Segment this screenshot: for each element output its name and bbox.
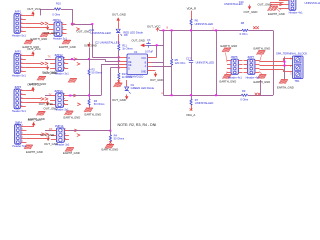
svg-text:Header 5x1: Header 5x1 bbox=[12, 109, 27, 113]
svg-text:Header 4x1: Header 4x1 bbox=[289, 10, 304, 14]
svg-text:OUT_GND: OUT_GND bbox=[244, 10, 258, 14]
svg-text:EARTH_GND: EARTH_GND bbox=[31, 37, 48, 41]
svg-text:R11: R11 bbox=[122, 43, 127, 47]
svg-text:SPA_TERMINAL_BLOCK: SPA_TERMINAL_BLOCK bbox=[276, 52, 307, 56]
svg-text:B: B bbox=[167, 26, 169, 29]
svg-text:EARTH_GND: EARTH_GND bbox=[277, 85, 294, 89]
svg-text:R10: R10 bbox=[56, 1, 61, 5]
svg-text:EARTH_GND: EARTH_GND bbox=[221, 44, 238, 48]
svg-text:R2: R2 bbox=[92, 68, 96, 72]
svg-text:JMP13: JMP13 bbox=[54, 89, 63, 93]
svg-text:R5: R5 bbox=[175, 58, 179, 62]
svg-text:EARTH_GND: EARTH_GND bbox=[85, 112, 102, 116]
svg-text:OUT_VCC: OUT_VCC bbox=[147, 25, 161, 29]
svg-text:OUT_VCC: OUT_VCC bbox=[27, 7, 41, 11]
svg-text:0 Ohm: 0 Ohm bbox=[240, 32, 248, 36]
svg-text:OUT_GND: OUT_GND bbox=[44, 31, 58, 35]
svg-text:JMP3: JMP3 bbox=[14, 85, 21, 89]
svg-text:JMP4: JMP4 bbox=[15, 120, 22, 124]
svg-text:OUT_GND: OUT_GND bbox=[77, 30, 91, 34]
svg-text:R: R bbox=[128, 57, 130, 60]
svg-text:Header 4x1: Header 4x1 bbox=[246, 76, 261, 80]
svg-text:EARTH_GND: EARTH_GND bbox=[254, 80, 271, 84]
svg-text:Header 5x1: Header 5x1 bbox=[12, 33, 27, 37]
svg-text:3: 3 bbox=[290, 73, 292, 75]
svg-text:R7: R7 bbox=[195, 98, 199, 102]
svg-text:OUT_GND: OUT_GND bbox=[112, 13, 126, 17]
svg-text:JMP7: JMP7 bbox=[247, 55, 254, 59]
svg-text:VDA_A: VDA_A bbox=[186, 113, 195, 117]
svg-text:GND: GND bbox=[141, 71, 147, 74]
svg-text:VCC: VCC bbox=[141, 57, 146, 60]
svg-text:D1: D1 bbox=[131, 83, 135, 87]
svg-text:OUT_GND: OUT_GND bbox=[150, 78, 163, 82]
svg-text:U1: U1 bbox=[134, 50, 138, 54]
svg-text:VDA_R: VDA_R bbox=[187, 7, 196, 11]
svg-text:R14: R14 bbox=[122, 72, 127, 76]
svg-text:2: 2 bbox=[213, 27, 215, 30]
svg-text:JMP14: JMP14 bbox=[55, 124, 64, 128]
svg-text:EARTH_GND: EARTH_GND bbox=[254, 46, 271, 50]
svg-text:JMP1: JMP1 bbox=[14, 10, 21, 14]
svg-text:OUT_GND: OUT_GND bbox=[42, 71, 56, 75]
svg-text:NOTE: R2, R3, R4 - DNI: NOTE: R2, R3, R4 - DNI bbox=[118, 123, 157, 127]
svg-text:JMP12: JMP12 bbox=[54, 53, 63, 57]
svg-text:Header 5x1: Header 5x1 bbox=[12, 144, 27, 148]
svg-text:EARTH_GND: EARTH_GND bbox=[23, 45, 40, 49]
svg-text:TB1: TB1 bbox=[295, 79, 300, 83]
svg-text:R8: R8 bbox=[241, 21, 245, 25]
svg-text:UNINSTALLED: UNINSTALLED bbox=[91, 31, 111, 35]
svg-text:2: 2 bbox=[290, 66, 292, 68]
svg-text:GREEN LED Diode: GREEN LED Diode bbox=[131, 86, 155, 90]
svg-text:Header 5x1: Header 5x1 bbox=[12, 73, 27, 77]
svg-text:JMP2: JMP2 bbox=[14, 50, 21, 54]
svg-text:RX: RX bbox=[49, 128, 53, 131]
svg-text:EARTH_GND: EARTH_GND bbox=[59, 45, 76, 49]
svg-text:TX: TX bbox=[48, 56, 51, 59]
svg-text:SN65HVD11D: SN65HVD11D bbox=[126, 75, 143, 79]
svg-text:A: A bbox=[161, 92, 163, 95]
svg-text:0 Ohm: 0 Ohm bbox=[52, 13, 60, 17]
svg-text:EARTH_GND: EARTH_GND bbox=[26, 150, 43, 154]
svg-text:C17: C17 bbox=[186, 57, 191, 61]
svg-text:R3: R3 bbox=[94, 99, 98, 103]
svg-text:JMP5: JMP5 bbox=[231, 55, 238, 59]
svg-text:C3: C3 bbox=[147, 38, 151, 42]
svg-text:0.07uF: 0.07uF bbox=[145, 49, 154, 53]
svg-text:EARTH_GND: EARTH_GND bbox=[220, 80, 237, 84]
svg-text:R6: R6 bbox=[195, 18, 199, 22]
svg-text:EARTH_GND: EARTH_GND bbox=[64, 116, 81, 120]
svg-text:OUT_GND: OUT_GND bbox=[132, 39, 145, 43]
svg-text:R4: R4 bbox=[114, 133, 118, 137]
svg-text:EARTH_GND: EARTH_GND bbox=[30, 82, 47, 86]
svg-text:D: D bbox=[128, 67, 130, 70]
svg-text:DE: DE bbox=[128, 64, 132, 67]
svg-text:JMP11: JMP11 bbox=[53, 18, 62, 22]
svg-text:OUT_GND: OUT_GND bbox=[258, 3, 272, 7]
svg-text:OUT_GND: OUT_GND bbox=[39, 102, 53, 106]
svg-text:OUT_GND: OUT_GND bbox=[40, 133, 54, 137]
svg-text:C2 UNINSTALLED: C2 UNINSTALLED bbox=[95, 40, 120, 44]
svg-text:UNINSTALLED: UNINSTALLED bbox=[196, 61, 215, 65]
svg-text:0 Ohm: 0 Ohm bbox=[240, 98, 248, 102]
svg-text:R9: R9 bbox=[242, 89, 246, 93]
svg-text:RE: RE bbox=[128, 61, 132, 64]
svg-text:Header 3x1: Header 3x1 bbox=[53, 37, 68, 41]
svg-text:EARTH_GND: EARTH_GND bbox=[268, 12, 285, 16]
svg-text:OUT_GND: OUT_GND bbox=[112, 98, 126, 102]
svg-text:UNINSTALLED: UNINSTALLED bbox=[305, 1, 320, 5]
svg-text:TX: TX bbox=[49, 94, 52, 97]
